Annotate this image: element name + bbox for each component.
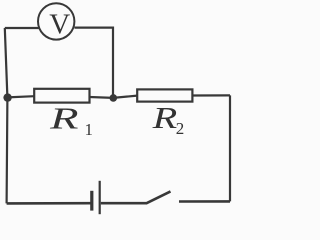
svg-text:1: 1 xyxy=(85,120,94,139)
svg-text:2: 2 xyxy=(176,119,185,138)
svg-text:R: R xyxy=(151,100,177,134)
svg-text:R: R xyxy=(49,101,79,136)
svg-text:V: V xyxy=(49,9,70,41)
